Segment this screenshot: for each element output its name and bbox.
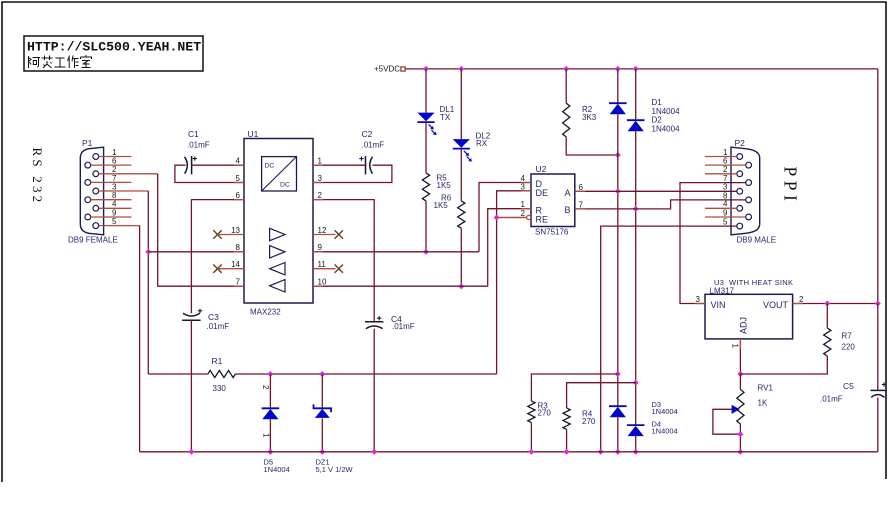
svg-text:1N4004: 1N4004: [264, 465, 290, 474]
svg-text:HTTP://SLC500.YEAH.NET: HTTP://SLC500.YEAH.NET: [27, 40, 201, 55]
node D5 top junction: [267, 371, 273, 377]
svg-text:DB9 FEMALE: DB9 FEMALE: [68, 236, 118, 245]
node DZ1 top junction: [319, 371, 325, 377]
wire RV1 top lead: [739, 374, 741, 390]
wire DL1 top lead: [425, 69, 427, 113]
svg-text:.01mF: .01mF: [207, 322, 230, 331]
wire DZ1 top lead: [321, 374, 323, 408]
svg-text:VIN: VIN: [711, 300, 726, 310]
node D1/A junction: [615, 188, 621, 194]
resistor R6 1K5: [458, 201, 465, 228]
diode D4 1N4004: [627, 424, 645, 426]
wire RV1 wiper loop: [713, 409, 741, 434]
svg-text:270: 270: [538, 409, 552, 418]
wire U2 A to P2 pin3: [575, 190, 737, 192]
wire D2 top lead: [635, 69, 637, 120]
capacitor C4 .01mF: [365, 321, 383, 323]
wire R7 top lead: [826, 304, 828, 329]
wire U1 pin1 to C2: [313, 164, 366, 166]
diode D2 1N4004: [627, 119, 645, 121]
svg-text:6: 6: [579, 183, 584, 192]
node D3 GND junction: [615, 449, 621, 455]
wire D2 down through B-net to D4: [635, 130, 637, 425]
node D4 GND junction: [633, 449, 639, 455]
svg-text:4: 4: [723, 200, 728, 209]
node R6/pin10 junction: [458, 283, 464, 289]
node DZ1 GND junction: [319, 449, 325, 455]
wire U2 DE pin3 riser to R1 net: [497, 191, 531, 374]
wire +5V rail right edge drop to VOUT node: [877, 69, 879, 304]
U1 pin12 no-connect stub: [313, 234, 336, 236]
U3 pin lead stubs: [695, 303, 705, 305]
svg-text:SN75176: SN75176: [535, 228, 569, 237]
wire R2 top lead: [565, 69, 567, 103]
svg-text:PPI: PPI: [781, 167, 801, 206]
node RV1 wiper junction: [737, 431, 743, 437]
wire U1 pin10 net to U2 pin1 R: [313, 285, 488, 287]
svg-text:DB9 MALE: DB9 MALE: [737, 236, 777, 245]
wire U2 B to P2 pin8: [575, 200, 746, 209]
diode D1 1N4004: [609, 102, 627, 104]
wire +5V rail: [405, 68, 878, 70]
op-amp U1 MAX232 box: [244, 139, 313, 304]
potentiometer RV1 1K: [737, 390, 744, 424]
wire C3 to GND rail: [190, 320, 192, 452]
wire P2 pin5 to GND: [601, 226, 737, 452]
svg-text:2: 2: [261, 385, 270, 390]
svg-text:1N4004: 1N4004: [652, 107, 681, 116]
svg-text:C5: C5: [843, 381, 854, 391]
node C3 GND junction: [188, 449, 194, 455]
svg-text:.01mF: .01mF: [820, 395, 843, 404]
capacitor C1 .01mF: [191, 156, 193, 174]
svg-text:2: 2: [521, 209, 526, 218]
wire R1 net left segment: [148, 373, 208, 375]
node D2/B junction: [633, 206, 639, 212]
svg-text:RX: RX: [476, 139, 488, 148]
svg-text:2: 2: [318, 191, 323, 200]
wire D3 to GND: [617, 416, 619, 451]
wire C4 to GND rail: [373, 329, 375, 452]
U1 pin11 no-connect stub: [313, 268, 336, 270]
node R7 top junction: [824, 301, 830, 307]
wire D5 top lead: [269, 374, 271, 408]
capacitor C2 .01mF: [365, 156, 367, 174]
title box: [24, 36, 203, 71]
wire MAX232 pin8 to junction: [148, 251, 244, 253]
svg-text:13: 13: [231, 226, 240, 235]
resistor R2 3K3: [563, 103, 570, 137]
svg-text:9: 9: [723, 208, 728, 217]
P2 pin stub wires: [705, 156, 737, 158]
U2 RE inversion bubble: [527, 215, 531, 219]
wire R2 bottom to D1 line: [566, 137, 618, 155]
U1 pin lead stubs: [234, 164, 244, 166]
zener diode DZ1 5,1V 1/2W: [314, 404, 332, 412]
node R5/pin9 junction: [423, 249, 429, 255]
node DE/RE junction: [494, 215, 500, 221]
P1 pin stub wires: [99, 156, 132, 158]
wire R1 net right segment to U2 DE/RE riser: [235, 373, 496, 375]
wire U1 pin2 down to C4: [313, 200, 374, 322]
svg-text:MAX232: MAX232: [250, 308, 281, 317]
node R2/D1 junction: [615, 152, 621, 158]
svg-text:C3: C3: [208, 312, 219, 322]
svg-text:D1: D1: [652, 98, 663, 107]
wire C1 to U1 pin4: [192, 164, 244, 166]
svg-text:9: 9: [318, 243, 323, 252]
wire DL2 top lead: [460, 69, 462, 139]
svg-text:1N4004: 1N4004: [652, 407, 678, 416]
svg-text:10: 10: [318, 278, 327, 287]
wire D1 down through A-net to D3: [617, 113, 619, 406]
svg-text:DC: DC: [265, 163, 275, 170]
U1 pin13 no-connect stub: [219, 234, 244, 236]
wire D4 to GND: [635, 435, 637, 452]
svg-text:2: 2: [723, 165, 728, 174]
wire R5 to pin9 net: [425, 201, 427, 252]
U1 DC/DC converter symbol: [262, 157, 297, 191]
node D3 top junction: [615, 371, 621, 377]
svg-text:5: 5: [236, 174, 241, 183]
svg-text:7: 7: [579, 201, 584, 210]
wire U3 VOUT to right edge: [793, 303, 878, 305]
svg-text:1: 1: [262, 433, 271, 438]
wire DZ1 bottom lead: [321, 419, 323, 452]
svg-text:4: 4: [112, 200, 117, 209]
svg-text:3: 3: [696, 295, 701, 304]
svg-text:330: 330: [213, 384, 227, 393]
wire R3 riser and R3-D3 net: [531, 374, 617, 401]
node P1.3/MAX232.8 junction: [145, 249, 151, 255]
wire U3 ADJ down: [739, 339, 741, 374]
svg-text:A: A: [565, 188, 571, 198]
svg-text:220: 220: [842, 343, 856, 352]
resistor R3 270: [528, 401, 535, 423]
svg-text:U2: U2: [536, 164, 547, 174]
svg-text:3: 3: [521, 182, 526, 191]
node RV1 GND junction: [737, 449, 743, 455]
svg-text:5: 5: [723, 218, 728, 227]
svg-text:270: 270: [582, 417, 596, 426]
wire R4 riser and R4-D4 net: [567, 383, 636, 408]
LED DL1 TX: [417, 113, 434, 122]
wire D5 bottom lead: [269, 419, 271, 452]
wire R7 bottom to ADJ node: [740, 356, 827, 374]
capacitor C3 .01mF: [182, 319, 200, 321]
svg-text:B: B: [565, 205, 571, 215]
svg-text:2: 2: [799, 295, 804, 304]
svg-text:1: 1: [521, 200, 526, 209]
connector P2 DB9 male: [731, 147, 760, 235]
svg-text:P1: P1: [82, 138, 93, 148]
svg-text:ADJ: ADJ: [739, 317, 749, 334]
wire RV1 bottom lead: [739, 424, 741, 452]
node R4 GND junction: [564, 449, 570, 455]
svg-text:7: 7: [723, 174, 728, 183]
svg-text:VOUT: VOUT: [763, 300, 789, 310]
node VOUT right corner junction: [875, 301, 881, 307]
U1 buffer triangles: [270, 228, 285, 240]
LED DL2 RX: [453, 139, 470, 148]
diode D5 1N4004: [262, 407, 280, 409]
title chinese text 阿苏工作室: [29, 56, 41, 68]
svg-text:4: 4: [236, 157, 241, 166]
svg-text:6: 6: [723, 157, 728, 166]
wire U1 pin5 loop to C1: [175, 165, 244, 182]
svg-text:LM317: LM317: [710, 287, 735, 296]
svg-text:8: 8: [236, 243, 241, 252]
resistor R5 1K5: [422, 173, 429, 201]
node rail junctions: [423, 66, 429, 72]
svg-text:14: 14: [231, 260, 240, 269]
wire U1 pin6 to C3: [191, 200, 244, 314]
svg-text:.01mF: .01mF: [392, 322, 415, 331]
svg-text:.01mF: .01mF: [362, 140, 385, 149]
svg-text:.01mF: .01mF: [187, 140, 210, 149]
wire C5 to GND corner: [877, 397, 879, 451]
svg-text:1N4004: 1N4004: [652, 426, 678, 435]
svg-text:RE: RE: [536, 215, 549, 225]
svg-text:C2: C2: [362, 129, 373, 139]
diode D3 1N4004: [609, 405, 627, 407]
svg-text:C1: C1: [188, 129, 199, 139]
svg-text:12: 12: [318, 226, 327, 235]
resistor R1 330: [208, 370, 236, 377]
node D5 GND junction: [267, 449, 273, 455]
node ADJ/RV1/R7 junction: [737, 371, 743, 377]
transceiver U2 SN75176 box: [531, 174, 575, 227]
svg-text:TX: TX: [440, 113, 451, 122]
wire U2 RE pin2 to DE riser: [497, 217, 527, 219]
wire U1 pin9 net to U2 pin4 D: [313, 251, 479, 253]
svg-text:1K5: 1K5: [434, 201, 449, 210]
svg-text:1K5: 1K5: [437, 181, 452, 190]
U2 pin lead stubs: [521, 182, 531, 184]
svg-text:RV1: RV1: [758, 384, 774, 393]
wire R3 to GND: [530, 423, 532, 452]
capacitor C5 .01mF: [870, 389, 885, 391]
wire DL1 to R5: [425, 123, 427, 173]
connector P1 DB9 female: [80, 147, 103, 235]
wire R6 to pin10 net: [460, 228, 462, 286]
svg-text:U1: U1: [248, 129, 259, 139]
svg-text:5,1 V 1/2W: 5,1 V 1/2W: [316, 465, 354, 474]
wire P1 pin2 to MAX232 pin7: [99, 173, 158, 175]
svg-text:3: 3: [112, 182, 117, 191]
node R3 GND junction: [528, 449, 534, 455]
svg-text:R1: R1: [212, 356, 223, 366]
wire P1 pin3 down: [99, 190, 149, 192]
node P2.5 GND junction: [598, 449, 604, 455]
wire P2 pin7 to U3 VIN: [680, 183, 746, 304]
svg-text:3K3: 3K3: [582, 113, 597, 122]
svg-text:1N4004: 1N4004: [652, 124, 681, 133]
svg-text:6: 6: [236, 191, 241, 200]
svg-text:1: 1: [318, 157, 323, 166]
resistor R7 220: [824, 328, 831, 356]
svg-text:DC: DC: [280, 182, 290, 189]
node D4 top junction: [633, 380, 639, 386]
wire R4 to GND: [566, 429, 568, 451]
svg-text:11: 11: [318, 260, 327, 269]
node C4 GND junction: [371, 449, 377, 455]
wire C5 top lead: [877, 304, 879, 391]
svg-text:R7: R7: [842, 332, 853, 341]
resistor R4 270: [563, 408, 570, 430]
U1 pin14 no-connect stub: [219, 268, 244, 270]
svg-text:DE: DE: [536, 188, 549, 198]
svg-text:+5VDC: +5VDC: [374, 64, 400, 73]
svg-text:P2: P2: [735, 138, 746, 148]
svg-text:7: 7: [236, 278, 241, 287]
svg-text:6: 6: [112, 157, 117, 166]
svg-text:5: 5: [112, 217, 117, 226]
wire D1 top lead: [617, 69, 619, 103]
svg-text:3: 3: [318, 174, 323, 183]
svg-text:1K: 1K: [758, 399, 768, 408]
wire C2 loop to U1 pin3: [313, 165, 392, 182]
wire DL2 to R6: [460, 149, 462, 201]
svg-text:RS 232: RS 232: [30, 148, 45, 206]
regulator U3 LM317 box: [705, 294, 793, 339]
svg-text:D2: D2: [652, 116, 663, 125]
wire P1 pin5 to GND rail: [99, 225, 140, 227]
wire GND bottom rail: [140, 451, 878, 453]
svg-text:1: 1: [731, 344, 740, 349]
